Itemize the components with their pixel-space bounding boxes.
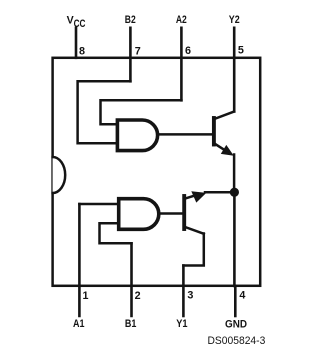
wire A2 to gate G2 upper input — [101, 100, 182, 124]
package notch — [53, 157, 66, 193]
pin 2 wire (B1), continues inside to corner — [130, 243, 133, 316]
svg-text:3: 3 — [187, 290, 193, 302]
svg-text:A2: A2 — [176, 14, 187, 26]
wire B1 to gate G1 lower input — [100, 223, 132, 243]
node: junction of emitters and GND pin — [230, 188, 239, 197]
svg-text:7: 7 — [135, 45, 141, 57]
transistor Q2 collector lead — [216, 112, 235, 119]
svg-text:CC: CC — [74, 18, 86, 30]
AND gate G2 — [117, 120, 157, 151]
svg-text:5: 5 — [238, 44, 244, 56]
svg-text:B1: B1 — [125, 318, 137, 330]
IC package outline — [53, 58, 261, 286]
transistor Q2 base bar — [212, 118, 216, 145]
svg-text:GND: GND — [225, 318, 247, 330]
transistor Q2 emitter lead with arrow — [216, 144, 225, 149]
wire Q2 emitter down to GND node — [233, 155, 236, 193]
svg-text:A1: A1 — [73, 318, 85, 330]
svg-text:1: 1 — [83, 290, 89, 302]
svg-text:8: 8 — [79, 45, 85, 57]
svg-text:DS005824-3: DS005824-3 — [208, 335, 266, 347]
pin 3 wire (Y1), continues inside to corner — [182, 266, 185, 317]
pin 1 wire (A1), continues inside to gate G1 — [78, 204, 81, 316]
wire G1 output to Q1 base — [159, 212, 182, 215]
svg-text:Y2: Y2 — [229, 14, 240, 26]
svg-text:6: 6 — [185, 45, 191, 57]
pin 7 wire (B2), continues inside to corner — [129, 28, 132, 82]
transistor Q1 base bar — [182, 196, 186, 229]
wire G2 output to Q2 base — [158, 133, 212, 136]
pin 8 wire (VCC) — [75, 28, 78, 58]
wire Q1 collector to pin 3 (Y1) — [183, 234, 203, 266]
pin 4 wire (GND), from node through edge — [233, 192, 236, 286]
transistor Q1 emitter lead with arrow (to node rail) — [186, 195, 196, 198]
svg-text:B2: B2 — [125, 14, 136, 26]
pin 5 wire (Y2), continues inside to Q2 collector — [233, 28, 236, 112]
wire Q1 emitter to node — [205, 191, 234, 194]
wire B2 to gate G2 lower input — [78, 81, 131, 143]
svg-text:4: 4 — [239, 289, 245, 301]
pin 6 wire (A2), continues inside to corner — [180, 28, 183, 101]
wire A1 to gate G1 upper input — [79, 203, 117, 206]
svg-text:2: 2 — [135, 290, 141, 302]
AND gate G1 — [119, 199, 159, 230]
svg-text:Y1: Y1 — [176, 318, 187, 330]
transistor Q1 collector lead — [186, 227, 204, 234]
